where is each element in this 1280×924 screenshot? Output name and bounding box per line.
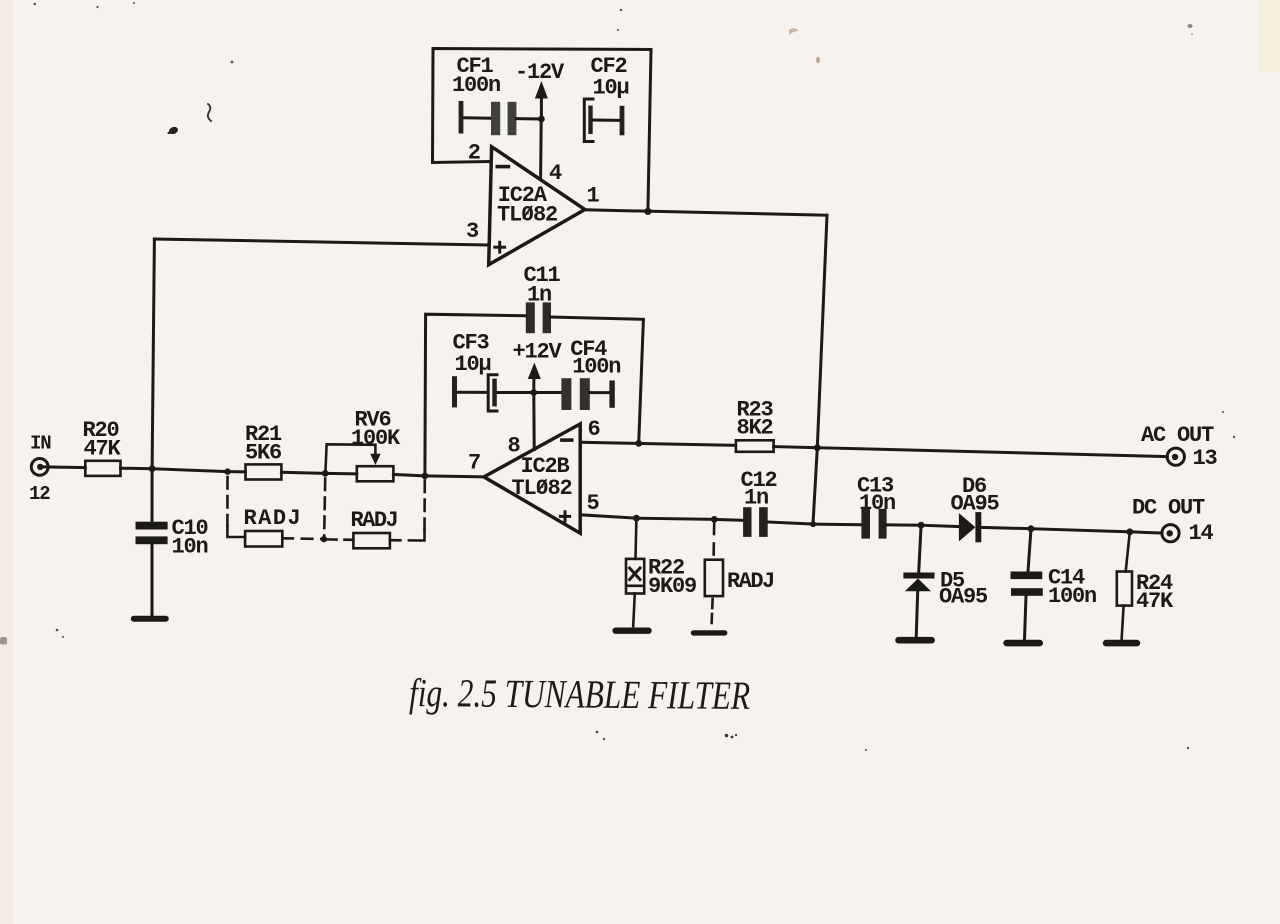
node R22	[633, 515, 640, 522]
scan smudge near IN column	[167, 126, 179, 136]
terminal 14 DC OUT	[1162, 525, 1179, 542]
label CF3 10µ	[453, 331, 491, 378]
feedback loop box around CF3/CF4 (left edge to pin7 node, right edge to pin6 wire)	[425, 314, 644, 476]
svg-text:2: 2	[468, 141, 480, 166]
svg-text:fig. 2.5 TUNABLE FILTER: fig. 2.5 TUNABLE FILTER	[409, 670, 750, 718]
ground (C14)	[1007, 640, 1040, 647]
label C13 10n	[857, 474, 895, 517]
wire C12 to tee node	[768, 522, 813, 524]
svg-text:100K: 100K	[351, 426, 401, 451]
wire RADJ node to C12	[714, 518, 743, 522]
svg-text:RADJ: RADJ	[727, 569, 774, 594]
label R23 8K2	[737, 398, 774, 441]
ground (C10)	[134, 616, 166, 622]
node RV6 left	[322, 470, 329, 477]
svg-text:6: 6	[588, 417, 600, 442]
svg-text:RADJ: RADJ	[351, 508, 398, 533]
potentiometer RV6 (track)	[357, 466, 394, 481]
terminal 13 AC OUT	[1167, 448, 1184, 465]
label C14 100n	[1048, 566, 1096, 610]
svg-text:47K: 47K	[1136, 589, 1174, 614]
label R22 9K09	[648, 556, 696, 600]
capacitor CF1	[459, 101, 542, 135]
resistor R23	[736, 440, 774, 452]
svg-text:OA95: OA95	[951, 492, 1000, 517]
svg-text:100n: 100n	[452, 73, 500, 98]
svg-text:1n: 1n	[744, 486, 768, 511]
wire pin 3 horizontal	[154, 239, 487, 245]
wire D5 node to D6	[921, 525, 959, 526]
node pin7 / feedback	[422, 473, 429, 480]
wire dashed down from R21 left node	[227, 477, 245, 537]
minus sign IC2A	[497, 165, 508, 169]
resistor RADJ (right)	[353, 533, 390, 548]
label CF2 10µ	[591, 54, 629, 101]
svg-text:13: 13	[1193, 446, 1218, 471]
node R24	[1126, 528, 1133, 535]
label D5 OA95	[939, 569, 988, 610]
ground (R24)	[1106, 640, 1137, 647]
wire dashed RADJ to corner	[390, 539, 421, 542]
svg-text:9K09: 9K09	[648, 574, 696, 599]
label C10 10n	[172, 516, 208, 560]
op-amp U1 IC2A TL082	[489, 147, 585, 265]
svg-text:47K: 47K	[84, 437, 122, 462]
svg-text:5: 5	[587, 491, 600, 516]
node V- junction	[538, 116, 545, 123]
svg-text:12: 12	[29, 483, 50, 505]
svg-text:10µ: 10µ	[455, 352, 491, 377]
label R24 47K	[1136, 571, 1174, 614]
wire pin7 node to IC2B output	[425, 476, 484, 477]
wire R21 to RV6	[281, 472, 356, 474]
capacitor C12	[743, 507, 768, 537]
svg-text:1: 1	[587, 184, 600, 209]
node R21 left	[224, 468, 230, 474]
node AC	[814, 444, 821, 451]
svg-text:8: 8	[508, 434, 521, 459]
wire R20 to input node	[121, 467, 153, 471]
label D6 OA95	[951, 474, 1000, 517]
+12V supply arrow	[528, 363, 541, 393]
wire IC2A output to right	[585, 210, 827, 215]
capacitor C14	[1011, 529, 1043, 639]
plus sign IC2A	[495, 242, 505, 252]
node D5	[918, 522, 925, 529]
wire RV6 to pin7 node	[393, 474, 425, 476]
wire pin 6 to R23	[580, 442, 736, 445]
svg-text:100n: 100n	[572, 355, 620, 380]
wire C13 to D5 node	[887, 523, 922, 526]
wire AC node to terminal 13	[817, 448, 1167, 457]
capacitor CF4	[534, 378, 615, 410]
resistor R22 9K09 (vertical, with x mark)	[626, 518, 644, 626]
label C12 1n	[741, 468, 777, 511]
svg-text:7: 7	[468, 451, 480, 476]
scan smudge bottom middle	[725, 734, 737, 739]
wire AC node down to DC line	[813, 448, 817, 524]
node V+ junction	[530, 389, 537, 396]
label C11 1n	[524, 263, 561, 308]
wire R22 node to RADJ node	[636, 518, 714, 519]
svg-text:DC OUT: DC OUT	[1132, 496, 1205, 521]
terminal 12 IN	[31, 459, 48, 476]
wire dashed RADJ to mid node	[282, 537, 322, 540]
svg-text:8K2: 8K2	[737, 416, 773, 441]
resistor RADJ (left)	[245, 531, 282, 547]
svg-text:3: 3	[466, 219, 479, 244]
faint warm patch top right corner	[1258, 0, 1280, 72]
wire dashed mid node to RADJ right	[326, 538, 353, 541]
svg-text:14: 14	[1189, 521, 1214, 546]
svg-text:1n: 1n	[527, 283, 551, 308]
RV6 wiper arm	[325, 444, 380, 473]
svg-text:100n: 100n	[1048, 584, 1096, 609]
svg-text:+12V: +12V	[513, 340, 563, 365]
power box around CF1/CF2 (top decoupling box, right edge joins IC2A output)	[433, 49, 652, 212]
capacitor C10	[136, 469, 168, 616]
svg-text:5K6: 5K6	[245, 441, 281, 466]
wire pin 8 down into IC2B	[532, 393, 535, 450]
faint left edge strip	[0, 0, 13, 924]
label IC2B TL082	[512, 454, 572, 501]
ground (RADJ)	[694, 630, 725, 635]
node C14	[1028, 525, 1035, 532]
svg-text:AC OUT: AC OUT	[1141, 423, 1214, 448]
resistor R24 47K (vertical)	[1117, 532, 1132, 640]
diode D5 OA95 (vertical, cathode up)	[903, 525, 934, 637]
svg-text:10n: 10n	[172, 535, 208, 560]
wire tee node to C13	[813, 523, 861, 527]
svg-text:4: 4	[549, 161, 562, 186]
label DC OUT / 14	[1132, 496, 1214, 547]
svg-text:TL082: TL082	[512, 476, 572, 501]
op-amp U2 IC2B TL082 (points left)	[484, 424, 580, 533]
resistor RADJ (vertical, dashed leads)	[705, 523, 723, 624]
ground (R22)	[616, 628, 649, 634]
wire R23 to AC node	[774, 447, 818, 448]
svg-text:10µ: 10µ	[593, 76, 629, 101]
diode D6 OA95	[959, 507, 983, 542]
minus sign IC2B	[562, 438, 572, 442]
label R21 5K6	[245, 422, 282, 466]
svg-text:10n: 10n	[859, 491, 895, 516]
resistor R21	[246, 464, 282, 479]
wire left vertical from pin3 down to input node	[152, 239, 154, 469]
ground (D5)	[899, 637, 932, 644]
node pin6 / feedback box	[635, 440, 642, 447]
capacitor C11 (feedback, in series in loop top edge)	[526, 302, 551, 333]
scan mark squiggle	[208, 104, 211, 121]
label CF4 100n	[570, 337, 620, 380]
label IN / 12	[29, 433, 51, 506]
wire D6 to C14 node	[981, 527, 1031, 528]
plus sign IC2B	[560, 512, 569, 521]
label RV6 100K	[351, 408, 401, 451]
wire IN to R20	[43, 465, 85, 469]
scan specks	[34, 2, 1236, 751]
capacitor CF2 (electrolytic)	[584, 99, 624, 142]
label IC2A TL082	[497, 183, 557, 228]
capacitor C13	[861, 509, 886, 539]
wire dashed corner up to pin7 node	[421, 479, 425, 541]
wire C14 node to R24 node	[1031, 529, 1130, 532]
wire dashed down from RV6 left node	[324, 479, 325, 537]
label R20 47K	[83, 418, 122, 462]
node RADJ row mid	[321, 536, 327, 542]
scan dark dash left edge	[0, 637, 7, 645]
-12V supply arrow	[535, 81, 548, 119]
capacitor CF3 (electrolytic)	[452, 375, 534, 411]
svg-text:IN: IN	[30, 433, 51, 455]
svg-text:TL082: TL082	[497, 203, 557, 228]
wire pin 5 to R22 node	[580, 515, 636, 518]
node RADJ (vertical)	[711, 516, 718, 523]
node IC2A output / box edge	[644, 208, 651, 215]
scan marks top right (faint)	[789, 24, 1193, 63]
wire pin 4 to IC2A	[539, 119, 543, 179]
wire R24 node to terminal 14	[1130, 532, 1162, 533]
label AC OUT / 13	[1141, 423, 1218, 471]
wire right vertical down to AC node	[817, 215, 827, 448]
wire input node to R21	[152, 469, 245, 472]
node input/C10	[149, 465, 156, 472]
label CF1 100n	[452, 54, 500, 98]
resistor R20	[85, 461, 120, 476]
svg-text:OA95: OA95	[939, 585, 988, 610]
node tee below AC node	[810, 521, 816, 527]
svg-text:-12V: -12V	[515, 60, 565, 85]
